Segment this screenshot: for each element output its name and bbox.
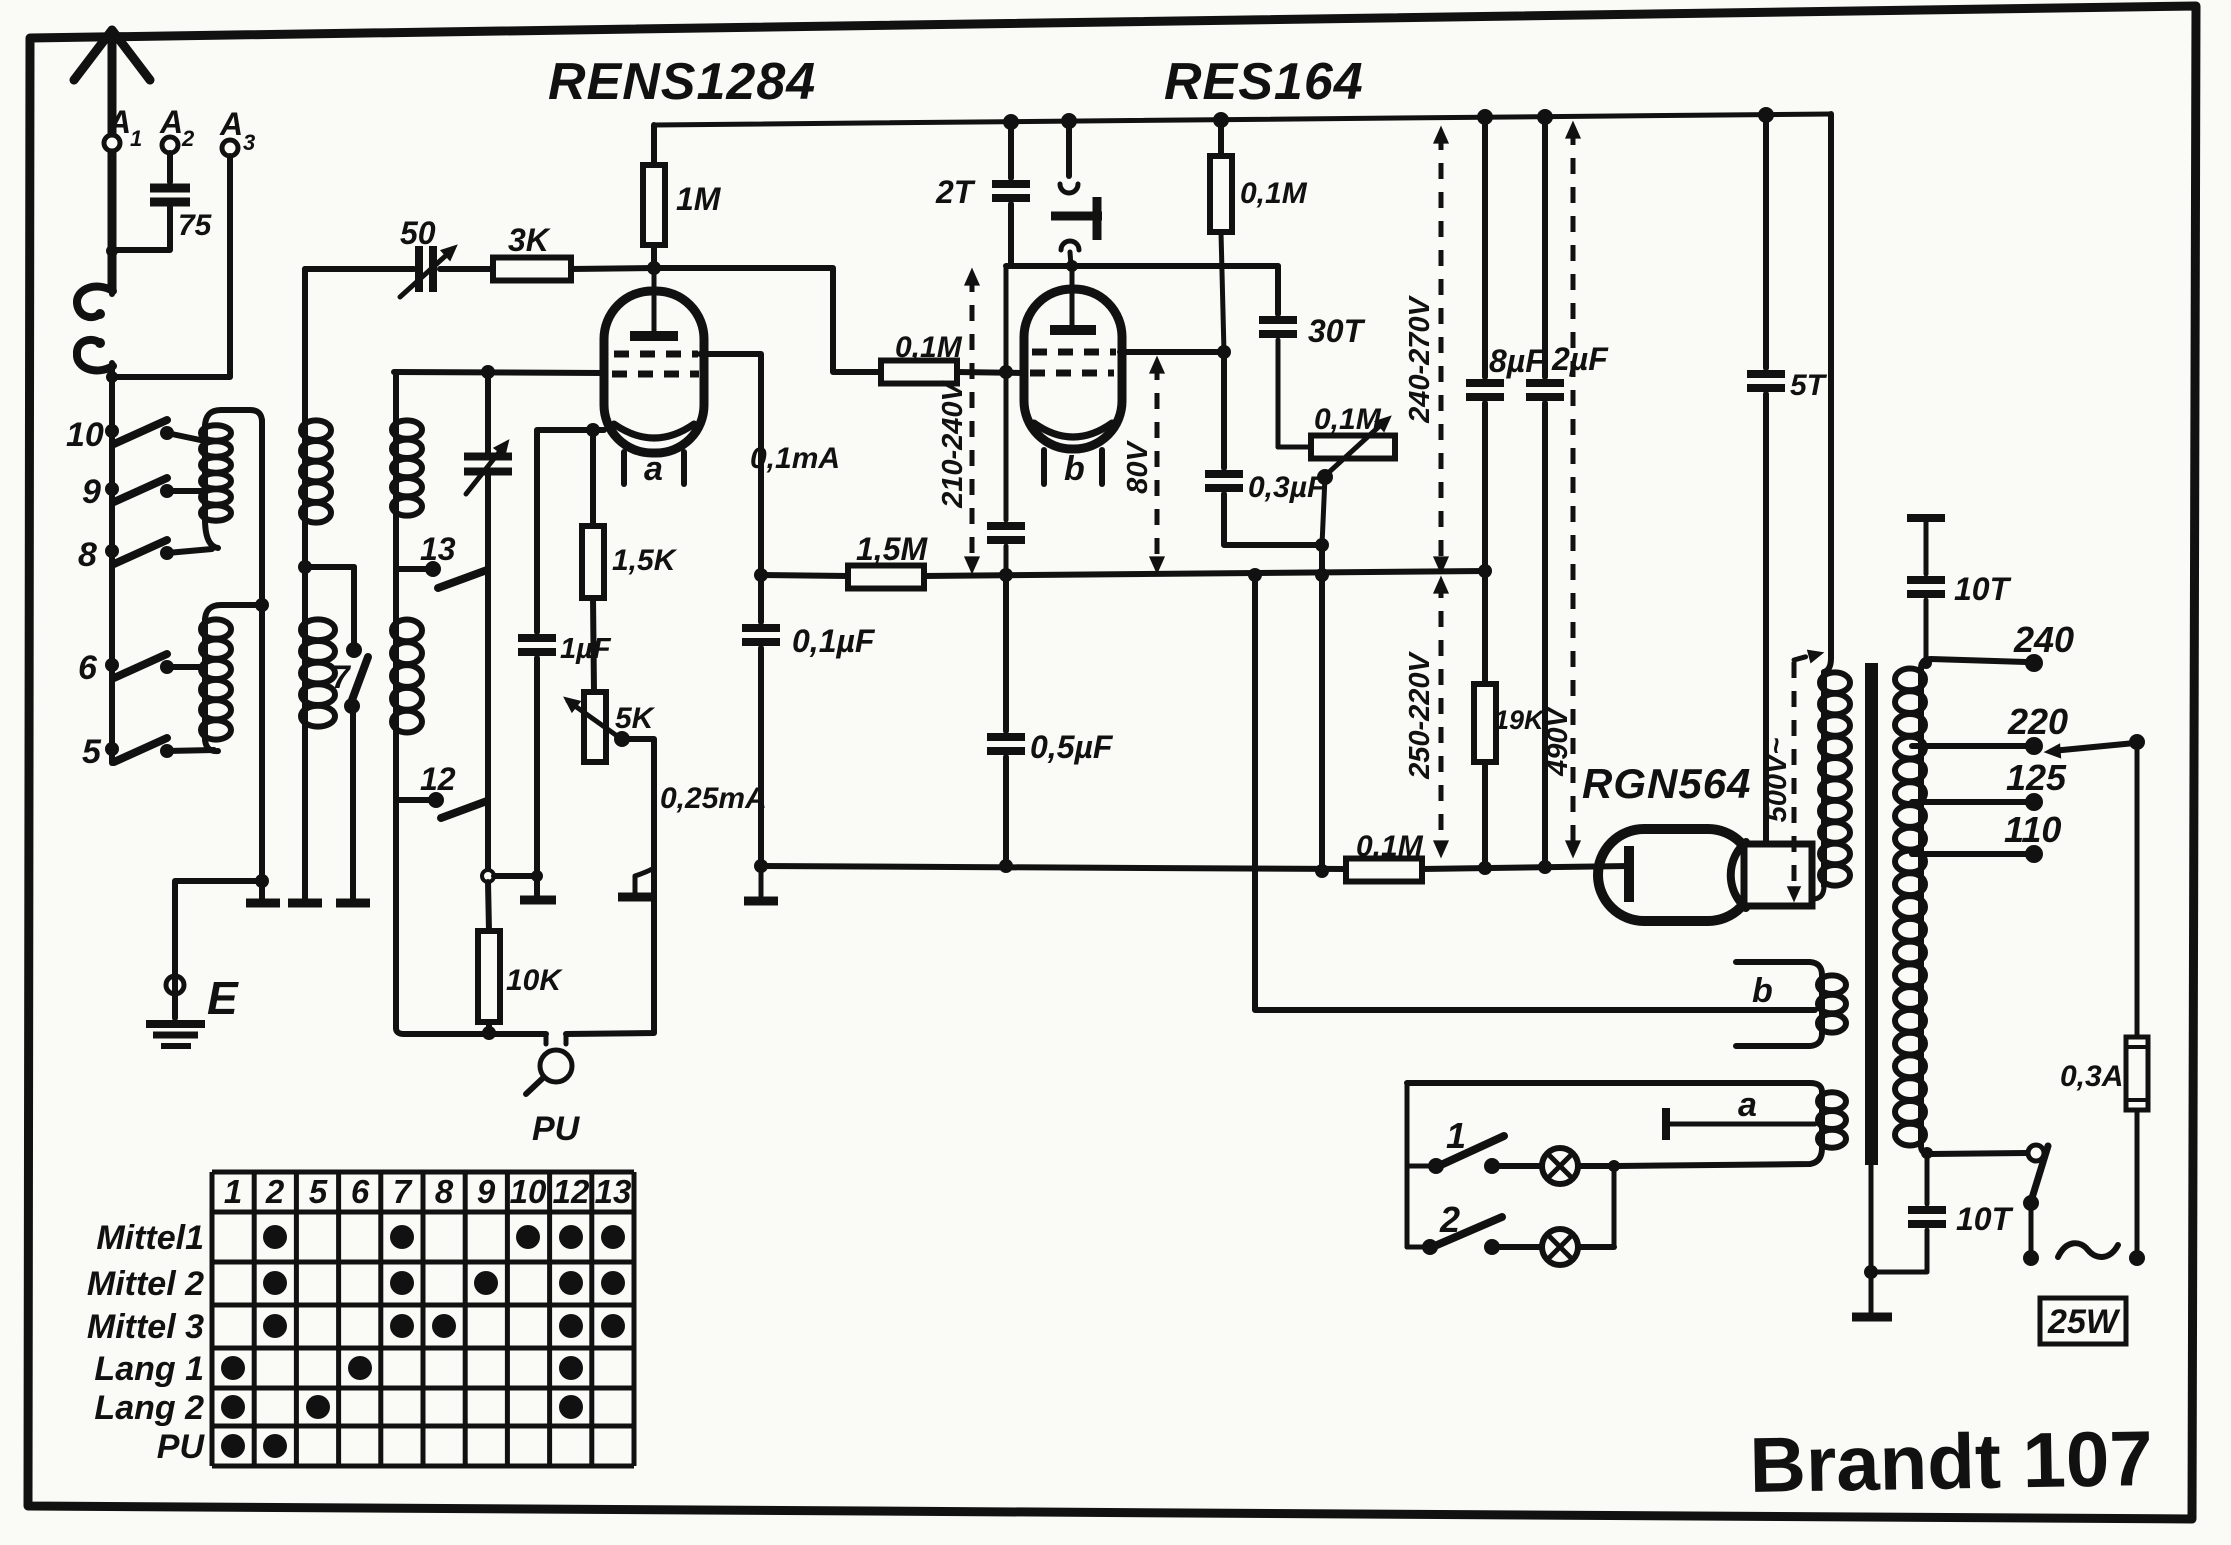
svg-text:6: 6 bbox=[351, 1173, 370, 1210]
grid (screen) bbox=[614, 351, 698, 358]
voltage annotation 500V~ bbox=[1794, 654, 1816, 660]
wire bbox=[109, 363, 115, 763]
HT rail bbox=[654, 114, 1831, 125]
wire bbox=[534, 658, 540, 895]
wire bbox=[114, 156, 230, 377]
wire bbox=[350, 706, 356, 899]
wire bbox=[1322, 477, 1325, 545]
svg-text:RGN564: RGN564 bbox=[1582, 760, 1751, 807]
svg-text:0,3A: 0,3A bbox=[2060, 1060, 2123, 1093]
resistor 1M anode load bbox=[651, 125, 657, 165]
ground bbox=[759, 866, 764, 896]
svg-text:240-270V: 240-270V bbox=[1404, 294, 1436, 423]
wire bbox=[1869, 1165, 1874, 1313]
wire bbox=[1006, 263, 1278, 269]
svg-text:240: 240 bbox=[2013, 619, 2074, 660]
wire bbox=[761, 575, 848, 576]
transformer secondary winding bbox=[1921, 659, 2026, 668]
switch 13 bbox=[396, 566, 428, 572]
svg-text:Mittel 3: Mittel 3 bbox=[87, 1308, 204, 1346]
wire bbox=[957, 372, 1024, 373]
wire bbox=[109, 252, 115, 294]
svg-text:PU: PU bbox=[532, 1110, 581, 1148]
svg-text:10K: 10K bbox=[506, 964, 563, 997]
wire bbox=[167, 750, 214, 751]
variable capacitor (tuning) bbox=[485, 372, 491, 455]
wire bbox=[167, 433, 205, 441]
svg-text:A: A bbox=[107, 104, 131, 140]
op tube U1 (RENS1284) envelope bbox=[604, 291, 704, 453]
earth electrode E bbox=[166, 976, 184, 994]
resistor 19K bbox=[1482, 571, 1488, 684]
svg-text:0,5µF: 0,5µF bbox=[1030, 729, 1114, 765]
switch contact 8 bbox=[105, 544, 119, 558]
switch 2 bbox=[1407, 1245, 1422, 1250]
svg-text:2µF: 2µF bbox=[1551, 341, 1609, 377]
voltage selector bbox=[2129, 734, 2145, 750]
lamp 2 bbox=[1542, 1229, 1578, 1265]
svg-text:1M: 1M bbox=[676, 181, 722, 217]
voltage annotation 240-270V bbox=[1439, 134, 1444, 566]
svg-text:10: 10 bbox=[66, 416, 104, 454]
svg-text:50: 50 bbox=[400, 215, 436, 251]
capacitor 30T bbox=[1275, 266, 1281, 314]
cathode bbox=[1034, 423, 1112, 437]
svg-text:12: 12 bbox=[420, 761, 456, 797]
capacitor 2µF bbox=[1542, 117, 1548, 377]
svg-text:220: 220 bbox=[2007, 701, 2068, 742]
svg-text:5T: 5T bbox=[1790, 369, 1828, 402]
svg-text:125: 125 bbox=[2006, 757, 2067, 798]
svg-text:1,5M: 1,5M bbox=[856, 531, 928, 567]
grid (control) bbox=[612, 371, 699, 378]
capacitor 10T (top) bbox=[1907, 514, 1945, 522]
svg-text:Lang 2: Lang 2 bbox=[94, 1389, 204, 1427]
svg-text:25W: 25W bbox=[2047, 1303, 2121, 1341]
transformer heater winding b bbox=[1736, 962, 1822, 975]
wire bbox=[167, 488, 205, 494]
svg-text:30T: 30T bbox=[1308, 313, 1366, 349]
fuse 0,3A bbox=[2126, 1037, 2148, 1110]
svg-text:9: 9 bbox=[82, 473, 101, 511]
wire bbox=[1422, 866, 1629, 869]
capacitor 1µF bbox=[518, 634, 556, 642]
svg-text:8µF: 8µF bbox=[1489, 343, 1546, 379]
wire bbox=[1120, 349, 1224, 355]
svg-text:A: A bbox=[159, 104, 183, 140]
voltage annotation 490V bbox=[1571, 129, 1576, 850]
rectifier U3 (RGN564) envelope bbox=[1598, 829, 1754, 921]
tap 240 bbox=[2025, 654, 2043, 672]
svg-text:1,5K: 1,5K bbox=[612, 544, 678, 577]
svg-text:6: 6 bbox=[78, 649, 98, 687]
svg-text:Mittel 2: Mittel 2 bbox=[87, 1265, 204, 1303]
capacitor (coupling) bbox=[1004, 372, 1009, 520]
resistor 0,1M (grid coupling) bbox=[881, 361, 957, 384]
anode bbox=[652, 268, 657, 332]
svg-text:8: 8 bbox=[78, 536, 97, 574]
resistor 1,5K bbox=[590, 430, 596, 526]
svg-text:0,3µF: 0,3µF bbox=[1248, 471, 1326, 504]
svg-text:2: 2 bbox=[265, 1173, 285, 1210]
switch 12 bbox=[396, 797, 431, 803]
svg-text:0,1M: 0,1M bbox=[1356, 830, 1424, 863]
svg-text:5K: 5K bbox=[615, 702, 656, 735]
svg-text:500V~: 500V~ bbox=[1761, 738, 1793, 823]
svg-text:1: 1 bbox=[1446, 1115, 1466, 1156]
tap 125 bbox=[1912, 799, 2026, 805]
svg-text:Mittel1: Mittel1 bbox=[96, 1219, 204, 1257]
capacitor 2T bbox=[1008, 122, 1014, 178]
wire bbox=[700, 354, 761, 571]
voltage annotation 210-240V bbox=[970, 276, 975, 566]
svg-text:110: 110 bbox=[2004, 809, 2061, 850]
coil L4a (tuned winding upper) bbox=[393, 372, 399, 420]
node 7 tap bbox=[298, 560, 312, 574]
svg-text:7: 7 bbox=[393, 1173, 413, 1210]
svg-text:b: b bbox=[1064, 450, 1085, 488]
svg-text:5: 5 bbox=[309, 1173, 328, 1210]
capacitor 0,3µF bbox=[1221, 352, 1227, 468]
svg-text:8: 8 bbox=[435, 1173, 454, 1210]
wire bbox=[1319, 545, 1325, 871]
wire bbox=[2135, 1110, 2140, 1252]
wire bbox=[167, 664, 205, 670]
svg-text:10: 10 bbox=[510, 1173, 547, 1210]
waveband table grid bbox=[212, 1170, 634, 1175]
svg-text:19K: 19K bbox=[1494, 705, 1546, 735]
switch 1 bbox=[1407, 1164, 1428, 1169]
svg-text:0,1µF: 0,1µF bbox=[792, 623, 876, 659]
wire bbox=[259, 420, 265, 899]
svg-text:RES164: RES164 bbox=[1164, 53, 1364, 111]
svg-text:PU: PU bbox=[157, 1428, 206, 1466]
capacitor 8µF bbox=[1482, 117, 1488, 377]
wire bbox=[404, 1031, 546, 1037]
terminal (mains switch) bbox=[2028, 1145, 2044, 1161]
ground bbox=[336, 899, 370, 908]
svg-text:2: 2 bbox=[181, 126, 195, 151]
tap 110 bbox=[1912, 851, 2026, 857]
anode bbox=[1624, 846, 1634, 902]
wire bbox=[494, 873, 537, 879]
tap 220 bbox=[1912, 743, 2026, 749]
wire bbox=[761, 866, 1346, 869]
terminal a (chassis) bbox=[1662, 1108, 1670, 1140]
potentiometer 5K bbox=[593, 598, 594, 692]
wire bbox=[393, 733, 399, 1028]
svg-text:E: E bbox=[207, 972, 239, 1024]
switch contact 5 bbox=[105, 742, 119, 756]
svg-text:0,25mA: 0,25mA bbox=[660, 782, 767, 815]
power rating 25W bbox=[2040, 1298, 2126, 1344]
resistor 0,1M (to rectifier) bbox=[1346, 859, 1422, 882]
grid cap connector bbox=[1066, 121, 1072, 176]
wire bbox=[1255, 575, 1815, 1010]
transformer heater winding a bbox=[1810, 1083, 1822, 1092]
lamp 1 bbox=[1542, 1148, 1578, 1184]
svg-text:0,1M: 0,1M bbox=[1240, 177, 1308, 210]
wire bbox=[924, 571, 1485, 576]
terminal A3 bbox=[222, 140, 238, 156]
switch contact 10 bbox=[105, 424, 119, 438]
ground bbox=[1852, 1313, 1892, 1322]
svg-text:10T: 10T bbox=[1954, 571, 2012, 607]
coil L1 (antenna coil upper) bbox=[205, 410, 262, 427]
resistor 1,5M bbox=[848, 566, 924, 589]
svg-text:210-240V: 210-240V bbox=[937, 379, 969, 508]
terminal A1 bbox=[104, 135, 120, 151]
capacitor 5T bbox=[1763, 115, 1769, 368]
wire bbox=[1578, 1163, 1618, 1169]
svg-text:13: 13 bbox=[420, 531, 456, 567]
svg-text:a: a bbox=[644, 450, 663, 488]
cathode bbox=[614, 424, 694, 438]
svg-text:1µF: 1µF bbox=[560, 633, 612, 665]
table dots bbox=[263, 1225, 287, 1249]
mains switch bbox=[2032, 1146, 2048, 1198]
plug connector bbox=[77, 287, 113, 318]
svg-text:0,1mA: 0,1mA bbox=[750, 442, 840, 475]
svg-text:12: 12 bbox=[553, 1173, 590, 1210]
wire bbox=[537, 430, 604, 632]
coil L2 (antenna coil lower) bbox=[205, 605, 262, 621]
svg-text:b: b bbox=[1752, 972, 1773, 1010]
resistor 10K bbox=[488, 882, 489, 931]
svg-text:A: A bbox=[219, 106, 243, 142]
wire bbox=[302, 727, 308, 899]
svg-text:75: 75 bbox=[178, 209, 213, 242]
svg-text:3: 3 bbox=[243, 130, 255, 155]
wire bbox=[167, 153, 173, 182]
svg-text:1: 1 bbox=[224, 1173, 242, 1210]
wire bbox=[394, 372, 604, 373]
capacitor 0,5µF bbox=[1003, 575, 1009, 731]
grid dashes bbox=[1030, 370, 1114, 377]
heater leads b bbox=[1041, 450, 1047, 484]
svg-text:3K: 3K bbox=[508, 222, 552, 258]
ground bbox=[520, 896, 556, 905]
wire bbox=[167, 549, 212, 553]
wire bbox=[1500, 1244, 1541, 1250]
wire bbox=[1500, 1163, 1541, 1169]
grid lead bbox=[1070, 266, 1075, 326]
svg-text:5: 5 bbox=[82, 733, 102, 771]
wire bbox=[1824, 114, 1831, 672]
svg-text:0,1M: 0,1M bbox=[895, 331, 963, 364]
pickup connector PU bbox=[544, 1034, 549, 1044]
coil L4b (tuned winding lower) bbox=[393, 619, 399, 733]
svg-text:0,1M: 0,1M bbox=[1314, 403, 1382, 436]
transformer core bbox=[1865, 663, 1878, 1165]
heater leads a bbox=[621, 452, 627, 484]
potentiometer 0,1M (regen) bbox=[1311, 436, 1395, 459]
ground bbox=[246, 899, 280, 908]
svg-text:80V: 80V bbox=[1122, 440, 1154, 494]
wire bbox=[2135, 742, 2140, 1037]
svg-text:Brandt 107: Brandt 107 bbox=[1749, 1414, 2154, 1509]
svg-text:1: 1 bbox=[130, 126, 142, 151]
svg-text:10T: 10T bbox=[1956, 1201, 2014, 1237]
coil L3a (RF coil upper) bbox=[302, 269, 308, 420]
wire bbox=[654, 268, 881, 372]
antenna bbox=[74, 30, 150, 290]
wire bbox=[571, 268, 654, 269]
resistor 0,1M (anode load b) bbox=[1218, 120, 1224, 156]
svg-text:250-220V: 250-220V bbox=[1404, 650, 1436, 779]
resistor 3K bbox=[440, 266, 493, 272]
tube base bbox=[1744, 844, 1812, 906]
svg-text:a: a bbox=[1738, 1086, 1757, 1124]
AC symbol bbox=[2058, 1243, 2118, 1257]
wire bbox=[1578, 1244, 1614, 1250]
voltage annotation 80V bbox=[1155, 364, 1160, 566]
ground bbox=[288, 899, 322, 908]
wire bbox=[175, 881, 262, 1018]
capacitor 50 (feedback trimmer) bbox=[305, 266, 414, 272]
svg-text:Lang 1: Lang 1 bbox=[94, 1350, 204, 1388]
tube U2 (RES164) envelope bbox=[1024, 289, 1122, 449]
voltage annotation 250-220V bbox=[1439, 582, 1444, 850]
switch contact 6 bbox=[105, 658, 119, 672]
svg-text:2: 2 bbox=[1439, 1199, 1460, 1240]
svg-text:RENS1284: RENS1284 bbox=[548, 53, 816, 111]
svg-text:9: 9 bbox=[477, 1173, 496, 1210]
wire bbox=[114, 202, 170, 250]
ground bbox=[635, 868, 654, 893]
wire bbox=[566, 739, 654, 1034]
transformer HV winding 500V bbox=[1821, 672, 1827, 886]
capacitor 75 bbox=[150, 184, 190, 193]
wire bbox=[1407, 1080, 1810, 1086]
capacitor 0,1µF bbox=[758, 575, 764, 622]
anode dashes bbox=[1032, 349, 1116, 356]
switch 7 bbox=[346, 642, 362, 658]
svg-text:2T: 2T bbox=[935, 174, 976, 210]
node bbox=[482, 870, 494, 882]
coil L3b (RF coil lower) bbox=[302, 567, 308, 619]
switch contact 9 bbox=[105, 482, 119, 496]
svg-text:13: 13 bbox=[595, 1173, 632, 1210]
capacitor 10T (bottom) bbox=[1921, 1147, 1933, 1159]
terminal A2 bbox=[162, 137, 178, 153]
